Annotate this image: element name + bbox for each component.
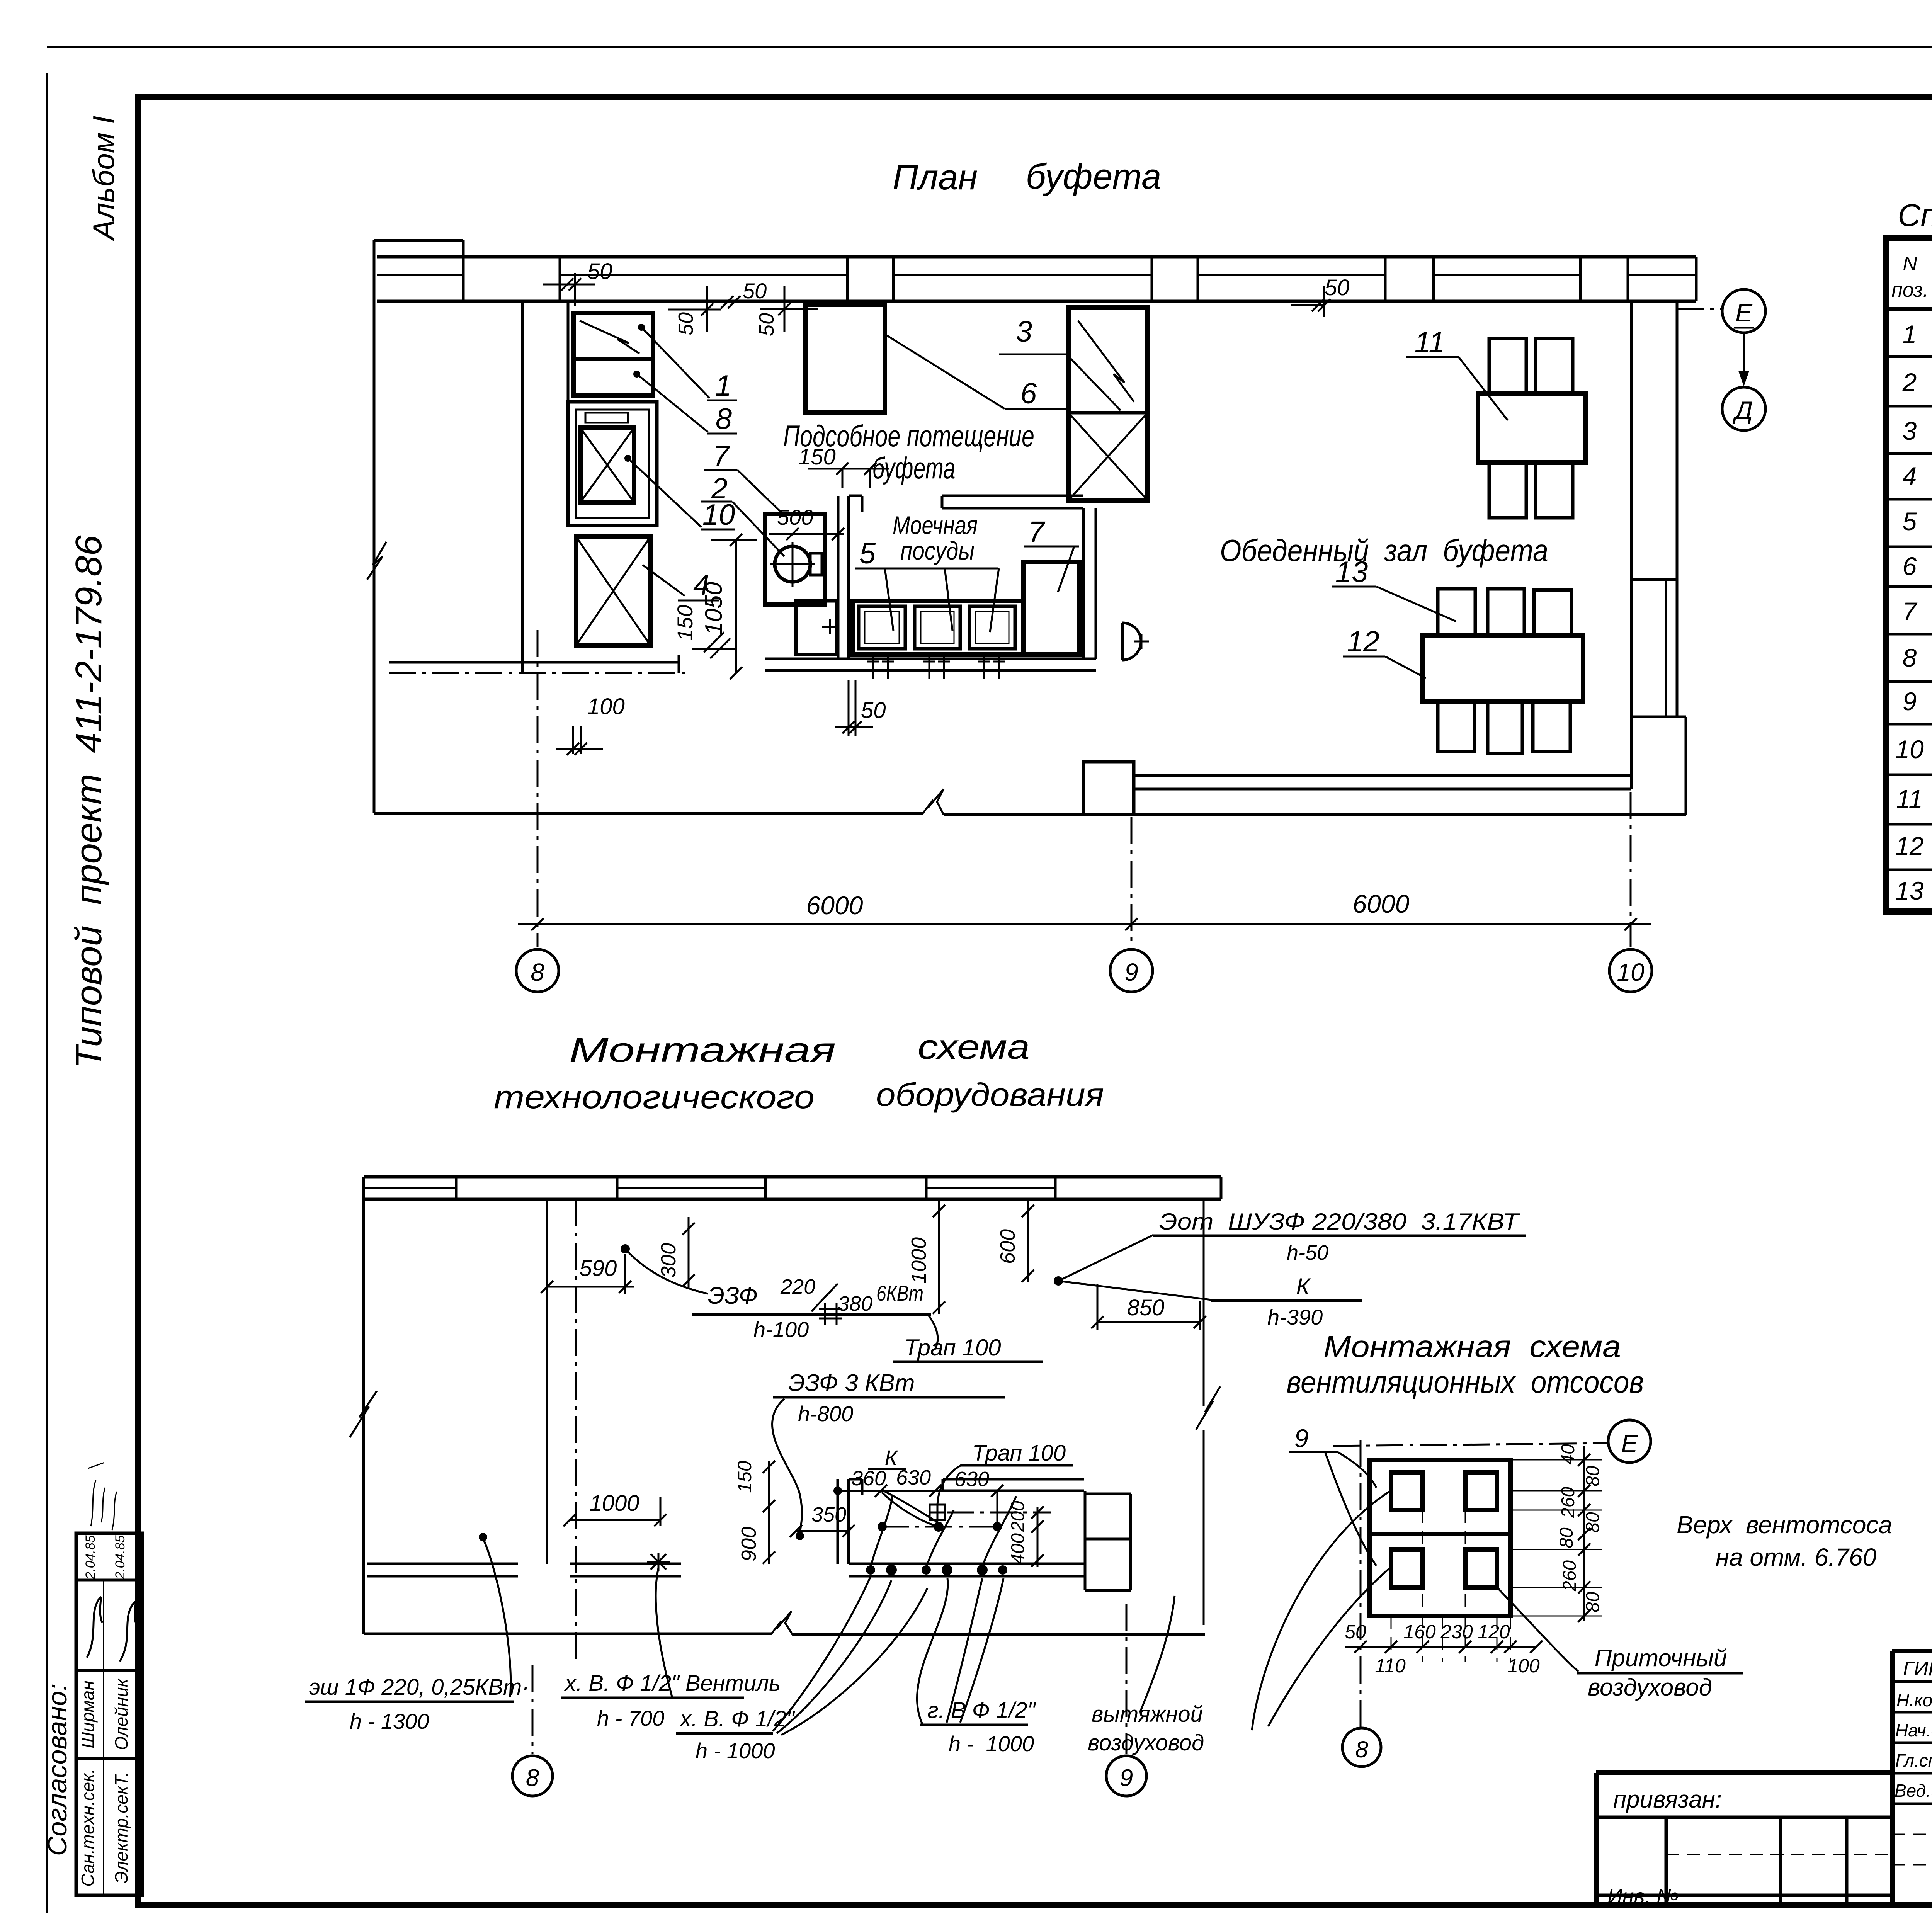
vent block outer <box>1370 1460 1510 1616</box>
svg-text:11: 11 <box>1896 784 1923 813</box>
svg-text:50: 50 <box>861 698 886 723</box>
svg-text:ГИП: ГИП <box>1903 1658 1932 1680</box>
svg-text:2: 2 <box>711 472 728 505</box>
montage left wall break marks <box>350 1391 377 1437</box>
вентилятор symbol <box>1122 623 1141 660</box>
svg-text:Эот ШУЗФ 220/380 3.17КВТ: Эот ШУЗФ 220/380 3.17КВТ <box>1159 1209 1520 1235</box>
стулья 13 у стола 12 <box>1438 589 1571 753</box>
svg-text:Е: Е <box>1735 298 1753 327</box>
svg-text:Монтажная: Монтажная <box>569 1031 836 1070</box>
svg-text:г. В Ф 1/2": г. В Ф 1/2" <box>927 1698 1036 1723</box>
svg-text:2.04.85: 2.04.85 <box>83 1535 98 1580</box>
svg-text:12: 12 <box>1895 832 1923 860</box>
svg-text:3: 3 <box>1016 315 1032 348</box>
svg-text:200: 200 <box>1008 1501 1028 1532</box>
axis circle 9 <box>1110 949 1153 992</box>
svg-text:Монтажная схема: Монтажная схема <box>1323 1329 1621 1364</box>
wire to приточный <box>1498 1589 1578 1672</box>
vent horizontal axis to Е <box>1333 1443 1607 1446</box>
spec table frame <box>1886 238 1932 912</box>
svg-text:Гл.спец.: Гл.спец. <box>1895 1750 1932 1770</box>
svg-text:посуды: посуды <box>900 536 975 565</box>
svg-text:7: 7 <box>713 440 730 473</box>
svg-text:9: 9 <box>1294 1424 1309 1452</box>
svg-text:360: 360 <box>851 1467 886 1490</box>
svg-text:Обеденный зал буфета: Обеденный зал буфета <box>1220 533 1548 568</box>
dim 600 vertical <box>1022 1199 1034 1282</box>
vent bottom dimension chain <box>1391 1510 1510 1662</box>
axis circle 10 <box>1609 949 1652 992</box>
svg-text:9: 9 <box>1120 1765 1133 1791</box>
svg-text:110: 110 <box>1375 1655 1406 1677</box>
pencil marks above table <box>88 1463 117 1530</box>
axis circle 8 <box>516 949 559 992</box>
vent opening 1 <box>1391 1472 1423 1510</box>
svg-text:N: N <box>1903 253 1917 275</box>
svg-text:80: 80 <box>1556 1527 1577 1548</box>
vent opening 3 <box>1391 1549 1423 1587</box>
signature block frame <box>1892 1651 1932 1905</box>
svg-text:12: 12 <box>1347 625 1380 658</box>
washing room left wall with notch <box>838 496 862 659</box>
svg-text:630: 630 <box>896 1466 931 1489</box>
leader and label 1 <box>638 324 645 331</box>
approval signature table (rotated) <box>76 1533 142 1895</box>
svg-text:150: 150 <box>734 1461 755 1493</box>
vent vertical axis dash <box>1360 1440 1362 1727</box>
svg-text:9: 9 <box>1124 958 1138 986</box>
plan top parapet <box>374 240 463 257</box>
svg-text:50: 50 <box>1345 1621 1366 1643</box>
montage top wall band <box>364 1177 1221 1199</box>
wire to К label <box>1058 1281 1211 1300</box>
svg-text:План: План <box>893 158 978 197</box>
dim 100 <box>556 726 603 755</box>
wires to вытяжной <box>1252 1490 1393 1730</box>
montage axis circle 9 <box>1106 1756 1146 1796</box>
svg-text:50: 50 <box>755 313 778 336</box>
plan dimension line 6000+6000 <box>518 918 1651 930</box>
грузовой лифт 10 <box>568 402 657 526</box>
dim 1050 vertical <box>711 534 757 679</box>
стол сп-1050А 7 with кипятильник 2 <box>765 514 825 605</box>
svg-text:10: 10 <box>1895 735 1924 764</box>
svg-text:11: 11 <box>1415 326 1445 359</box>
svg-text:100: 100 <box>587 694 625 719</box>
dining bottom corridor wall <box>1134 776 1631 789</box>
svg-text:600: 600 <box>996 1229 1019 1264</box>
montage right outer line with break <box>1196 1199 1220 1625</box>
svg-text:h-800: h-800 <box>798 1401 853 1426</box>
svg-text:260: 260 <box>1560 1560 1580 1592</box>
equipment: плита 1 + секция вставка 8 <box>574 313 653 395</box>
svg-text:воздуховод: воздуховод <box>1088 1730 1204 1755</box>
signatures squiggles <box>87 1597 139 1662</box>
montage inner wall line <box>546 1199 548 1564</box>
vent axis circle Е <box>1608 1420 1651 1463</box>
svg-text:К: К <box>1296 1274 1311 1299</box>
svg-text:5: 5 <box>859 537 876 570</box>
wires to floor points <box>871 1495 1016 1567</box>
svg-text:ЭЗФ: ЭЗФ <box>708 1282 758 1309</box>
svg-text:Спецификация: Спецификация <box>1898 198 1932 233</box>
svg-text:Трап 100: Трап 100 <box>972 1440 1066 1466</box>
обеденный стол 12 <box>1422 635 1583 702</box>
svg-text:50: 50 <box>587 259 612 284</box>
wire ЭШ to дот <box>484 1541 511 1697</box>
floor connection dots <box>866 1565 1007 1575</box>
svg-text:850: 850 <box>1127 1295 1165 1320</box>
vent axis circle 8 <box>1342 1728 1381 1767</box>
svg-text:6КВт: 6КВт <box>876 1281 923 1305</box>
dash line from trap <box>947 1512 1051 1514</box>
svg-text:220: 220 <box>780 1275 815 1298</box>
svg-text:оборудования: оборудования <box>876 1077 1104 1113</box>
small stand with cross <box>796 601 837 655</box>
building bottom wall line with break <box>374 813 1686 815</box>
svg-text:350: 350 <box>811 1503 846 1526</box>
svg-text:6000: 6000 <box>1353 889 1410 918</box>
svg-text:400: 400 <box>1008 1533 1028 1564</box>
wires Г.В. to floor dots <box>917 1578 1003 1725</box>
svg-text:буфета: буфета <box>1026 157 1162 196</box>
svg-text:7: 7 <box>1903 597 1918 626</box>
montage axis circle 8 <box>512 1756 553 1796</box>
svg-text:привязан:: привязан: <box>1613 1786 1722 1813</box>
svg-text:h-50: h-50 <box>1287 1241 1328 1264</box>
wire from ЭЗФ down <box>772 1399 802 1533</box>
montage axis 9 dash line <box>1126 1604 1128 1754</box>
spec table row lines <box>1886 357 1932 870</box>
svg-text:1000: 1000 <box>907 1237 930 1284</box>
step block <box>1083 762 1134 815</box>
svg-text:Олейник: Олейник <box>111 1678 131 1750</box>
svg-text:590: 590 <box>580 1256 617 1281</box>
svg-text:Приточный: Приточный <box>1595 1645 1727 1672</box>
montage ground line with break <box>364 1634 1205 1634</box>
svg-text:100: 100 <box>1507 1655 1540 1677</box>
svg-text:1: 1 <box>715 369 731 402</box>
montage washing right wall blocks <box>1085 1491 1131 1590</box>
svg-text:Вед.инж.: Вед.инж. <box>1895 1781 1932 1801</box>
svg-text:h - 1300: h - 1300 <box>350 1709 429 1733</box>
svg-text:150: 150 <box>673 605 697 641</box>
montage left wall <box>362 1177 365 1634</box>
svg-text:120: 120 <box>1478 1621 1510 1643</box>
svg-text:230: 230 <box>1440 1621 1473 1643</box>
washing room right wall <box>1083 508 1096 659</box>
svg-text:Сан.теxн.сек.: Сан.теxн.сек. <box>78 1769 98 1887</box>
vent opening 2 <box>1465 1472 1497 1510</box>
svg-text:6: 6 <box>1903 552 1917 580</box>
svg-text:80: 80 <box>1583 1466 1603 1486</box>
svg-text:80: 80 <box>1583 1592 1603 1612</box>
montage interior axis dash line <box>575 1199 577 1662</box>
svg-text:Н.контр: Н.контр <box>1896 1690 1932 1710</box>
svg-text:Моечная: Моечная <box>893 511 978 539</box>
svg-text:9: 9 <box>1903 687 1917 716</box>
svg-text:8: 8 <box>1903 643 1917 672</box>
svg-text:50: 50 <box>674 312 697 335</box>
svg-text:Инв. №: Инв. № <box>1607 1885 1679 1908</box>
trap symbol <box>930 1505 945 1520</box>
dim 850 <box>1091 1284 1206 1330</box>
svg-text:Трап 100: Трап 100 <box>904 1335 1001 1361</box>
svg-text:h - 1000: h - 1000 <box>696 1738 775 1763</box>
svg-text:6: 6 <box>1020 377 1037 410</box>
svg-text:50: 50 <box>743 279 767 303</box>
sink legs <box>867 655 1005 679</box>
svg-text:5: 5 <box>1903 507 1917 536</box>
svg-text:технологического: технологического <box>494 1079 815 1115</box>
montage bottom wall bands <box>367 1564 1085 1576</box>
svg-text:1050: 1050 <box>701 582 727 635</box>
vent right dimension chain <box>1510 1460 1602 1616</box>
montage axis 8 dash line <box>532 1665 534 1754</box>
plan left outer wall <box>373 240 376 813</box>
svg-text:8: 8 <box>531 958 544 986</box>
svg-text:Ширман: Ширман <box>78 1680 98 1748</box>
svg-text:ЭЗФ 3 КВт: ЭЗФ 3 КВт <box>788 1370 915 1396</box>
vent opening 4 <box>1465 1549 1497 1587</box>
svg-text:вентиляционных отсосов: вентиляционных отсосов <box>1287 1365 1644 1399</box>
wires х.В. to floor dots <box>773 1577 927 1735</box>
svg-text:h - 1000: h - 1000 <box>949 1731 1034 1756</box>
spec table header lines <box>1886 307 1932 311</box>
стол производственный 6 <box>806 304 885 413</box>
svg-text:6000: 6000 <box>806 891 863 920</box>
axis Е circle with arrow to Д <box>1677 308 1721 310</box>
plan left inner walls <box>522 301 568 672</box>
обеденный стол 11 <box>1478 394 1585 463</box>
svg-text:h-390: h-390 <box>1267 1305 1323 1329</box>
svg-text:Электр.секТ.: Электр.секТ. <box>111 1772 131 1884</box>
wire from grid to трап <box>843 1314 938 1349</box>
svg-text:вытяжной: вытяжной <box>1092 1702 1203 1727</box>
svg-text:380: 380 <box>838 1292 872 1315</box>
wire вентиль to star <box>656 1568 672 1698</box>
svg-text:150: 150 <box>798 444 836 469</box>
svg-text:260: 260 <box>1558 1487 1578 1518</box>
svg-text:Альбом I: Альбом I <box>87 116 121 241</box>
svg-text:80: 80 <box>1583 1512 1603 1533</box>
junction dot <box>1054 1276 1063 1286</box>
svg-text:10: 10 <box>1617 958 1645 986</box>
svg-text:h - 700: h - 700 <box>597 1706 664 1730</box>
холодильный шкаф 4 <box>576 537 650 645</box>
svg-text:Верх вентотсоса: Верх вентотсоса <box>1677 1511 1892 1539</box>
dim 1000 vertical <box>933 1199 945 1314</box>
svg-text:Согласовано:: Согласовано: <box>42 1684 72 1856</box>
прилавок-витрина 3 <box>1068 307 1148 500</box>
svg-text:поз.: поз. <box>1891 279 1929 301</box>
wire to вытяжной <box>1140 1596 1175 1713</box>
svg-text:13: 13 <box>1895 876 1924 905</box>
middle connection row <box>882 1526 997 1528</box>
wire to Эот label <box>1058 1235 1153 1281</box>
svg-text:900: 900 <box>737 1527 760 1561</box>
svg-text:воздуховод: воздуховод <box>1588 1674 1712 1701</box>
plan right wall with window <box>1631 303 1686 815</box>
стол сп-1050А 7 (right) <box>1023 562 1079 655</box>
svg-text:х. В. Ф 1/2": х. В. Ф 1/2" <box>679 1706 795 1731</box>
svg-text:160: 160 <box>1403 1621 1436 1643</box>
svg-text:8: 8 <box>526 1765 539 1791</box>
svg-text:Нач.отд.: Нач.отд. <box>1895 1720 1932 1740</box>
washing room bottom band <box>765 659 1096 670</box>
svg-text:8: 8 <box>1355 1736 1368 1762</box>
star mark <box>647 1553 670 1571</box>
svg-text:7: 7 <box>1028 515 1046 548</box>
plan top wall band <box>377 257 1696 301</box>
svg-text:8: 8 <box>716 403 732 435</box>
моечные ванны 5 <box>853 601 1023 655</box>
kitchen inner bottom wall <box>389 655 679 673</box>
svg-text:на отм. 6.760: на отм. 6.760 <box>1716 1543 1877 1571</box>
svg-text:2: 2 <box>1902 368 1917 396</box>
привязан box <box>1596 1773 1892 1905</box>
svg-text:Д: Д <box>1732 396 1753 425</box>
svg-text:2.04.85: 2.04.85 <box>113 1535 128 1580</box>
svg-text:Типовой проект 411-2-179.86: Типовой проект 411-2-179.86 <box>68 535 109 1068</box>
стулья у стола 11 <box>1489 338 1573 518</box>
dot лифт power <box>479 1533 487 1541</box>
montage washing walls <box>838 1479 862 1564</box>
power point плита: dot and wire <box>621 1244 630 1253</box>
svg-text:Е: Е <box>1621 1430 1638 1458</box>
svg-text:630: 630 <box>954 1468 989 1491</box>
svg-text:h-100: h-100 <box>753 1317 809 1342</box>
leader and label 8 <box>633 371 640 378</box>
washing room top band <box>942 496 1083 508</box>
leader and label 10 <box>624 455 631 462</box>
svg-text:эш 1Ф 220, 0,25КВт·: эш 1Ф 220, 0,25КВт· <box>309 1675 529 1700</box>
leader and label 4 <box>643 565 719 600</box>
svg-text:300: 300 <box>657 1243 680 1278</box>
svg-text:1: 1 <box>1903 320 1917 349</box>
svg-text:4: 4 <box>1903 462 1917 490</box>
svg-text:3: 3 <box>1903 417 1917 445</box>
plan axis lines <box>537 630 1631 947</box>
svg-text:х. В. Ф 1/2" Вентиль: х. В. Ф 1/2" Вентиль <box>564 1671 781 1696</box>
grid symbol <box>819 1303 842 1325</box>
svg-text:500: 500 <box>777 505 813 529</box>
dim 50 below washing <box>835 680 873 736</box>
svg-text:50: 50 <box>1325 275 1350 300</box>
svg-text:схема: схема <box>918 1028 1030 1066</box>
svg-text:40: 40 <box>1558 1444 1578 1465</box>
svg-text:1000: 1000 <box>589 1491 639 1516</box>
break marks left wall <box>367 542 386 580</box>
